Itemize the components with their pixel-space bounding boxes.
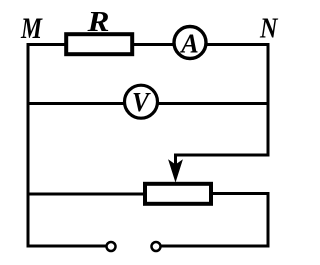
wire left vertical (M down to bottom-left corner)	[27, 43, 30, 248]
svg-text:N: N	[259, 13, 278, 45]
voltmeter U2	[125, 85, 158, 118]
wire rheostat right lead	[210, 192, 270, 195]
svg-text:M: M	[20, 12, 43, 45]
svg-text:A: A	[179, 29, 198, 59]
svg-text:V: V	[132, 87, 151, 117]
switch S1 right terminal	[152, 242, 161, 251]
switch S1 left terminal	[107, 242, 116, 251]
resistor R	[66, 34, 132, 54]
wire bottom right (switch terminal to bottom-right corner)	[160, 245, 270, 248]
wire right vertical upper (N down to wiper feed)	[267, 43, 270, 155]
wire bottom left (to switch terminal)	[27, 245, 108, 248]
wire rheostat left lead	[27, 193, 147, 196]
rheostat wiper arrow	[169, 161, 182, 182]
ammeter U1	[174, 27, 206, 59]
wire top horizontal (M to N through R and A)	[27, 43, 270, 46]
wire voltmeter branch horizontal	[27, 102, 270, 105]
svg-text:R: R	[86, 6, 109, 38]
wire wiper feed (right vertical to rheostat wiper)	[176, 155, 270, 166]
rheostat R2 body	[145, 184, 211, 204]
wire right vertical lower (rheostat lead to bottom-right corner)	[267, 192, 270, 248]
